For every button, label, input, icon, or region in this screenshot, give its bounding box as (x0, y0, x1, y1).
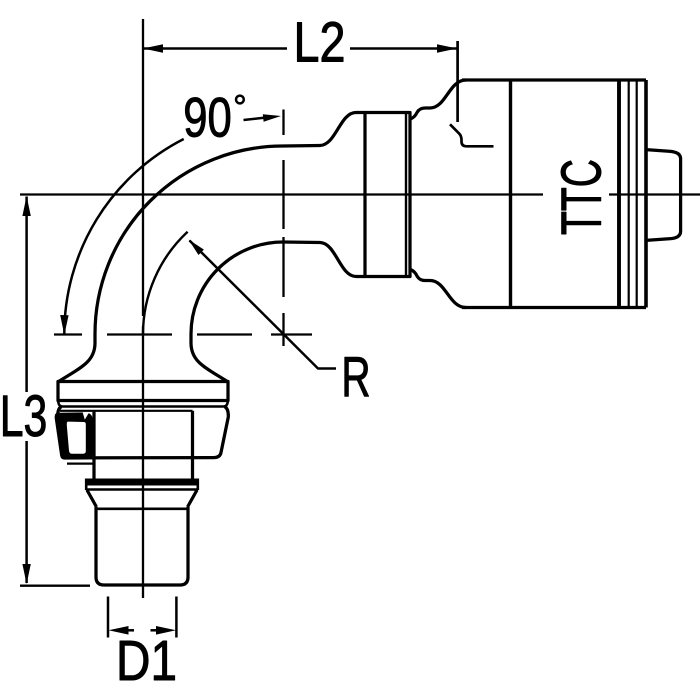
svg-text:90: 90 (183, 86, 232, 148)
tube top edge to collar (283, 113, 365, 147)
R leader line (190, 241, 337, 369)
groove right end (197, 479, 200, 491)
collar ring (365, 113, 410, 277)
collar inner edge line (405, 113, 407, 277)
L3 bottom extension line (20, 585, 90, 587)
nut top face line (60, 410, 193, 412)
socket band line 3 (636, 80, 638, 308)
svg-text:TTC: TTC (550, 159, 613, 235)
socket weld line (509, 80, 512, 308)
port pipe (96, 507, 188, 585)
clip lower line (67, 463, 95, 465)
pipe top step line (97, 507, 188, 510)
svg-text:D1: D1 (116, 629, 177, 693)
socket bell top profile (411, 80, 467, 119)
groove lower line (86, 488, 198, 490)
tube bottom edge to collar (283, 242, 365, 277)
flare right (tube to flange) (191, 334, 227, 381)
nut right chamfer (72, 407, 228, 458)
socket end cap (644, 80, 648, 308)
D1 arrow left (109, 626, 129, 635)
centerline vertical (port axis / L2 extension) (142, 19, 144, 598)
centerline horizontal dash through bend center y=334.5 (54, 333, 312, 335)
dimension L3 line (25, 197, 28, 584)
nut flat right edge (191, 411, 194, 458)
D1 arrow right (156, 626, 176, 635)
90 pointer line (244, 118, 266, 120)
L3 arrow down (22, 564, 30, 584)
R leader arrow (189, 240, 204, 256)
D1 arrow right tail (151, 629, 159, 632)
centerline horizontal (socket axis / L3 extension) (20, 193, 700, 195)
flare left (tube to flange) (59, 334, 95, 381)
90 arc arrow down (60, 315, 68, 335)
socket band line 1 (617, 80, 621, 308)
clip window (67, 422, 86, 454)
leader hook on socket (450, 124, 494, 146)
socket bell bottom profile (411, 270, 467, 308)
L3 arrow up (22, 196, 30, 216)
bend centerline arc R140 (143, 232, 188, 334)
flange plate (58, 382, 228, 401)
L2 arrow left (143, 44, 163, 53)
dimension L2 line (143, 47, 457, 50)
90 degree dimension arc (64, 139, 183, 334)
dimension D1 extension right (175, 597, 178, 638)
dimension D1 extension left (107, 597, 110, 638)
D1 arrow left tail (126, 629, 134, 632)
socket band line 2 (628, 80, 630, 308)
90 pointer arrow (263, 114, 281, 122)
neck right edge (191, 458, 194, 479)
L2 arrow right (437, 44, 457, 53)
svg-text:R: R (341, 345, 370, 408)
outer bend arc (tube outside R188) (95, 146, 283, 334)
centerline vertical dash at bend tangent x=283 (282, 110, 284, 347)
cone left edge (87, 490, 97, 507)
clip notch (83, 412, 90, 419)
nut flat left edge (92, 411, 95, 458)
nut left chamfer (58, 407, 62, 432)
clip tab (bold) (55, 412, 93, 459)
flange lower band (58, 401, 228, 407)
cone right edge (188, 490, 198, 507)
hose nipple (646, 150, 681, 241)
neck left edge (92, 458, 95, 479)
svg-text:L3: L3 (0, 384, 47, 449)
inner bend arc (tube inside R92) (191, 242, 283, 334)
svg-text:L2: L2 (294, 11, 346, 74)
socket shell bottom edge (462, 306, 646, 309)
socket shell top edge (462, 78, 646, 81)
groove left end (85, 479, 88, 491)
retaining ring groove (thick band) (86, 479, 198, 486)
degree symbol (236, 96, 244, 104)
L2 right extension line (456, 41, 459, 122)
